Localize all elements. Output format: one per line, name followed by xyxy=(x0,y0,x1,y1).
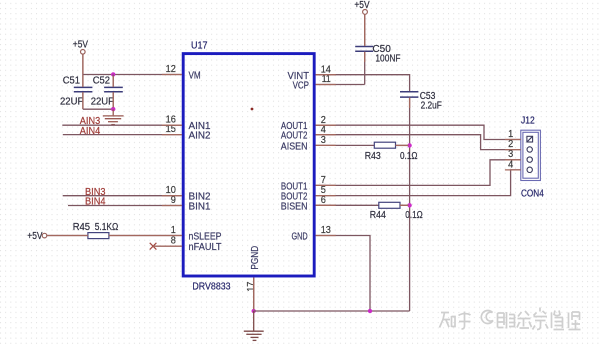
wire BIN3 xyxy=(63,195,182,197)
svg-text:0.1Ω: 0.1Ω xyxy=(405,210,423,221)
no-connect X on nFAULT xyxy=(150,243,157,250)
wire C50 bottom to VCP xyxy=(364,52,366,85)
wire AIN4 xyxy=(63,134,182,136)
IC pin stubs (lighter maroon pin colour) xyxy=(47,14,521,309)
wire pin6 stub xyxy=(316,204,336,206)
wire PGND pin17 stub xyxy=(253,278,255,312)
svg-text:C51: C51 xyxy=(63,76,80,87)
svg-text:+5V: +5V xyxy=(27,231,43,242)
wire pin17 stub xyxy=(253,278,255,310)
wire R44 to sense rail xyxy=(400,204,410,206)
ground symbol left xyxy=(103,109,124,124)
svg-text:9: 9 xyxy=(171,195,176,206)
wire +5V drop TL xyxy=(82,54,84,74)
wire C51 top stub xyxy=(82,75,84,88)
wire C51 bottom stub xyxy=(82,92,84,109)
wire J12 pin4 stub xyxy=(505,169,521,171)
wire J12 pin2 stub xyxy=(505,149,521,151)
connector J12 CON4 xyxy=(521,115,544,199)
svg-text:VCP: VCP xyxy=(293,81,310,92)
wire C52 top stub xyxy=(112,76,114,87)
svg-text:13: 13 xyxy=(321,225,331,236)
resistor R44 xyxy=(370,202,423,221)
svg-text:2.2uF: 2.2uF xyxy=(421,101,442,112)
wire C52 bottom stub xyxy=(112,92,114,107)
wire +5V to C50 xyxy=(364,14,366,46)
wire ground bus bottom xyxy=(254,310,410,312)
wire AOUT1 to J12 pin1 xyxy=(316,125,521,139)
wire BOUT2 to J12 pin4 xyxy=(316,170,521,196)
node junction gnd xyxy=(111,107,115,111)
pin 2 circle J12 xyxy=(527,147,532,152)
svg-text:AOUT2: AOUT2 xyxy=(281,131,308,142)
wire +5V to R45 xyxy=(47,235,88,237)
wire VM net horizontal xyxy=(83,74,182,76)
wire nFAULT stub xyxy=(153,245,182,247)
svg-text:0.1Ω: 0.1Ω xyxy=(400,151,418,162)
svg-text:22UF: 22UF xyxy=(91,96,114,107)
wire pin7 stub xyxy=(316,184,336,186)
svg-text:R44: R44 xyxy=(370,210,387,221)
svg-text:4: 4 xyxy=(508,159,514,170)
wire AOUT2 to J12 pin2 xyxy=(316,135,521,150)
node stray dot inside U17 xyxy=(251,108,254,111)
wire VCP pin 11 xyxy=(316,84,365,86)
resistor R45 xyxy=(73,222,119,239)
wire J12 pin3 stub xyxy=(505,159,521,161)
capacitor C50 xyxy=(355,44,400,65)
wire BISEN to R44 xyxy=(316,204,379,206)
svg-text:6: 6 xyxy=(321,195,326,206)
svg-text:8: 8 xyxy=(171,236,176,247)
wire C51 top stub xyxy=(82,75,84,87)
svg-text:4: 4 xyxy=(321,124,327,135)
svg-text:nSLEEP: nSLEEP xyxy=(189,232,222,243)
svg-text:+5V: +5V xyxy=(354,0,370,11)
wire BOUT1 to J12 pin3 xyxy=(316,160,521,186)
svg-text:3: 3 xyxy=(321,135,326,146)
capacitor C53 xyxy=(400,91,442,112)
svg-text:R43: R43 xyxy=(365,151,382,162)
node junction R43/rail xyxy=(407,143,411,147)
wire R44 right lead xyxy=(400,204,409,206)
wire R45 left lead xyxy=(47,235,88,237)
svg-text:1: 1 xyxy=(171,225,176,236)
wire pin8 stub xyxy=(153,245,182,247)
wire pin9 stub xyxy=(162,205,182,207)
svg-text:R45: R45 xyxy=(73,222,91,233)
node junction C52 top xyxy=(111,72,115,76)
node junction GND13/bus xyxy=(368,309,372,313)
wire pin13 stub xyxy=(316,235,336,237)
wire C52 top stub xyxy=(112,74,114,87)
wire AIN3 xyxy=(62,124,182,126)
capacitor C51 xyxy=(60,76,92,108)
resistor R43 xyxy=(365,142,418,162)
svg-text:12: 12 xyxy=(166,64,176,75)
watermark 知乎 @雕爷学编程 (vector strokes, grader has no CJK font) xyxy=(440,308,581,330)
wire VINT pin 14 to C53 xyxy=(316,75,410,92)
wire R45 to nSLEEP xyxy=(109,235,182,237)
wire BIN4 xyxy=(68,205,182,207)
node junction R44/rail xyxy=(407,203,411,207)
svg-text:J12: J12 xyxy=(521,115,535,126)
wire +5V drop to C50 xyxy=(364,14,366,46)
power +5V top-left xyxy=(73,40,89,55)
wire pin1 stub xyxy=(109,235,182,237)
svg-text:+5V: +5V xyxy=(73,40,89,51)
wire +5V drop xyxy=(82,54,84,74)
wire C52 bottom stub xyxy=(112,92,114,109)
svg-text:11: 11 xyxy=(322,74,331,85)
wire C53 bottom sense rail xyxy=(409,98,411,311)
wire GND pin13 down xyxy=(316,236,370,312)
wire pin5 stub xyxy=(316,195,336,197)
svg-text:CON4: CON4 xyxy=(521,188,544,199)
power +5V left (nSLEEP) xyxy=(27,231,47,242)
wire R43 to sense rail xyxy=(396,144,410,146)
pin 1 square pad J12 xyxy=(527,136,533,142)
svg-text:BIN1: BIN1 xyxy=(189,202,211,213)
wire pin3 stub xyxy=(316,144,336,146)
wire pin11 stub xyxy=(316,84,336,86)
wire pin12 stub xyxy=(162,74,182,76)
svg-text:PGND: PGND xyxy=(250,246,261,270)
svg-text:AIN2: AIN2 xyxy=(189,131,211,142)
svg-text:BISEN: BISEN xyxy=(281,201,308,212)
wire AISEN to R43 xyxy=(316,144,375,146)
wire R43 right lead xyxy=(396,144,409,146)
IC U17 DRV8833 body xyxy=(183,40,314,292)
svg-text:17: 17 xyxy=(246,282,257,292)
capacitor C52 xyxy=(91,76,123,108)
ground symbol bottom xyxy=(244,311,264,340)
svg-text:U17: U17 xyxy=(191,40,208,51)
pin 3 circle J12 xyxy=(527,157,532,162)
pin 4 circle J12 xyxy=(527,167,532,172)
node junction PGND xyxy=(252,309,256,313)
svg-text:5.1KΩ: 5.1KΩ xyxy=(95,222,119,233)
power +5V top (C50) xyxy=(354,0,370,14)
svg-text:DRV8833: DRV8833 xyxy=(192,282,230,293)
wire pin2 stub xyxy=(316,124,336,126)
svg-text:GND: GND xyxy=(292,231,308,242)
wire caps bottom link xyxy=(83,108,113,110)
wire pin14 stub xyxy=(316,74,336,76)
svg-text:nFAULT: nFAULT xyxy=(189,242,222,253)
svg-text:AISEN: AISEN xyxy=(281,141,308,152)
svg-text:100NF: 100NF xyxy=(375,54,400,65)
svg-text:C52: C52 xyxy=(93,76,110,87)
wire pin15 stub xyxy=(162,134,182,136)
wire J12 pin1 stub xyxy=(505,139,521,141)
wire pin16 stub xyxy=(162,124,182,126)
wire pin4 stub xyxy=(316,134,336,136)
wire C51 bottom stub xyxy=(82,92,84,109)
wire C53 bottom stub xyxy=(409,98,411,108)
svg-text:22UF: 22UF xyxy=(60,96,83,107)
svg-text:VM: VM xyxy=(189,71,201,82)
wire C50 bottom stub xyxy=(364,52,366,62)
wire pin10 stub xyxy=(162,195,182,197)
